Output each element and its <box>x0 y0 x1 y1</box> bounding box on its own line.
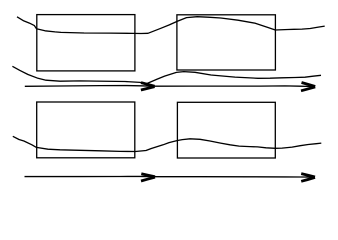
arrow line A1+A2 (horizontal line of the two top arrows) <box>25 86 311 87</box>
arrowhead A1 lower arm <box>141 87 155 90</box>
flow curve 2 (wavy line below box 1 rising under box 2) <box>12 66 321 83</box>
arrowhead A3 lower arm <box>141 177 155 181</box>
arrowhead A4 (right bottom arrow) upper arm <box>301 174 315 177</box>
box 1 (top-left rectangle) <box>37 15 135 71</box>
box 2 (top-right rectangle) <box>177 15 276 70</box>
box 4 (bottom-right rectangle) <box>177 102 275 158</box>
flow curve 1 (top wavy line through box 1 and box 2) <box>17 17 325 34</box>
arrowhead A3 (mid bottom arrow) upper arm <box>141 174 155 177</box>
arrowhead A4 lower arm <box>301 177 315 181</box>
arrow line A3+A4 (horizontal line of the two bottom arrows) <box>25 175 312 178</box>
arrowhead A1 (mid top arrow) upper arm <box>141 83 155 87</box>
arrowhead A2 (right top arrow) upper arm <box>302 83 316 87</box>
flow curve 3 (bottom wavy line through box 3 and box 4) <box>13 136 322 151</box>
arrowhead A2 lower arm <box>301 87 315 91</box>
box 3 (bottom-left rectangle) <box>37 102 135 158</box>
